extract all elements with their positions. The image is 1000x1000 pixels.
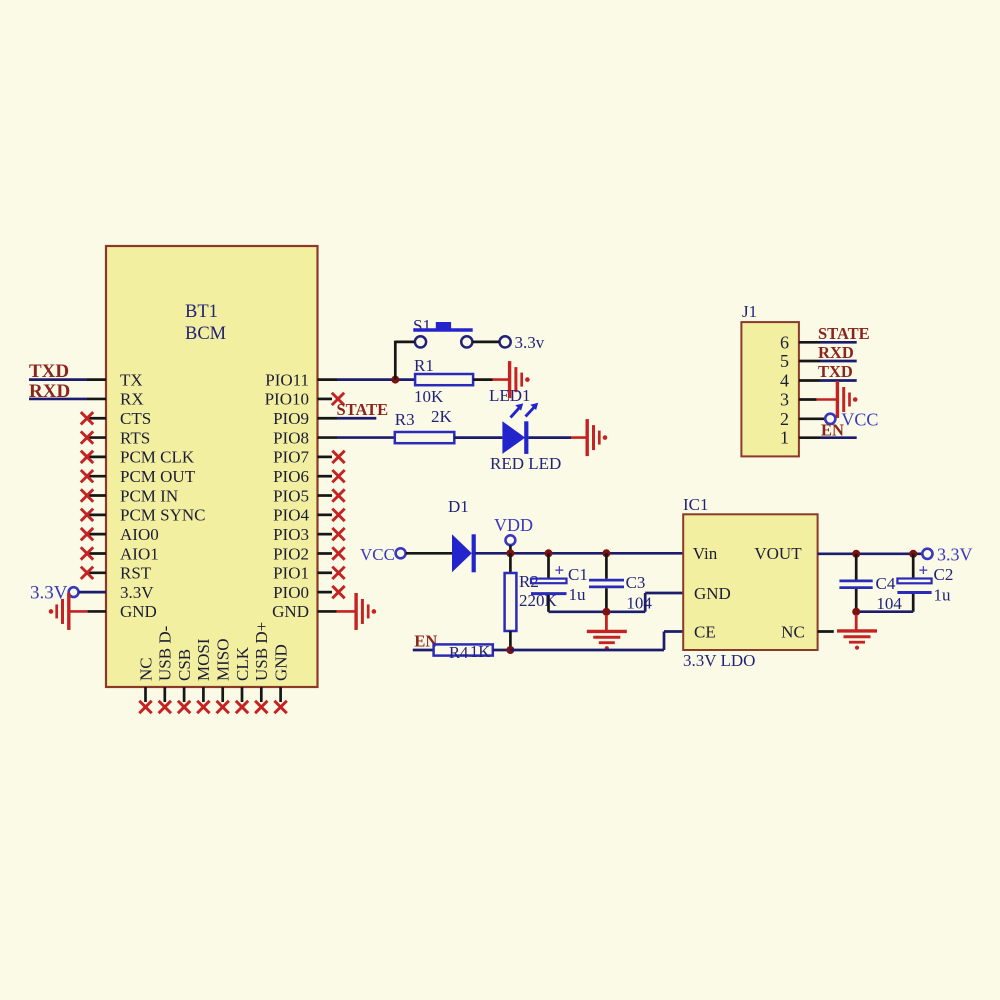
BT1 right pin label PIO4 xyxy=(273,506,309,525)
svg-text:D1: D1 xyxy=(448,497,469,516)
svg-text:BT1: BT1 xyxy=(185,302,218,322)
power port VCC (J1 pin 2) xyxy=(825,410,878,430)
svg-text:TXD: TXD xyxy=(818,362,853,381)
net label TXD xyxy=(29,361,69,382)
wire R4 to junction xyxy=(493,649,511,652)
junction node R4/R2/CE xyxy=(506,646,514,654)
BT1 left pin label RTS xyxy=(120,428,150,447)
BT1 bottom pin label GND xyxy=(271,644,290,681)
svg-text:AIO0: AIO0 xyxy=(120,525,159,544)
BT1 pin PIO0 stub with no-connect X xyxy=(318,586,345,598)
svg-text:3: 3 xyxy=(780,390,789,410)
svg-text:AIO1: AIO1 xyxy=(120,544,159,563)
net label TXD (J1 pin 4) xyxy=(818,362,853,381)
capacitor C2 (electrolytic 1u) xyxy=(897,554,953,612)
svg-text:STATE: STATE xyxy=(337,400,389,419)
net label RXD (J1 pin 5) xyxy=(818,343,854,362)
BT1 right GND pin wire xyxy=(318,610,357,613)
svg-text:CLK: CLK xyxy=(233,646,252,681)
resistor R2 (vertical) xyxy=(505,572,558,631)
IC1 NC pin stub xyxy=(818,630,834,633)
junction node VDD/R2 xyxy=(506,549,514,557)
svg-text:VCC: VCC xyxy=(841,410,878,430)
svg-text:3.3V LDO: 3.3V LDO xyxy=(683,651,755,670)
wire J1 pin 2 to VCC port xyxy=(799,417,825,420)
wire EN node to IC1 CE xyxy=(510,632,683,651)
svg-text:PIO10: PIO10 xyxy=(265,390,309,409)
BT1 pin PIO3 stub with no-connect X xyxy=(318,528,345,540)
J1 pin number 1 xyxy=(780,428,789,448)
svg-text:USB D-: USB D- xyxy=(156,625,175,681)
svg-text:PIO11: PIO11 xyxy=(265,370,309,389)
svg-text:+: + xyxy=(919,561,929,580)
svg-text:5: 5 xyxy=(780,351,789,371)
BT1 left pin label CTS xyxy=(120,409,151,428)
BT1 right pin label PIO11 xyxy=(265,370,309,389)
BT1 right pin label GND xyxy=(272,602,309,621)
junction node C2 top xyxy=(909,550,917,558)
IC U1 (IC1 3.3V LDO) body xyxy=(683,495,818,650)
resistor R1 xyxy=(414,356,473,406)
BT1 pin PIO2 stub with no-connect X xyxy=(318,547,345,559)
svg-text:S1: S1 xyxy=(413,316,431,335)
BT1 left pin label PCM CLK xyxy=(120,448,195,467)
junction node C1 xyxy=(545,549,553,557)
BT1 pin CTS stub with no-connect X xyxy=(81,412,106,424)
svg-text:CTS: CTS xyxy=(120,409,151,428)
capacitor C3 (104) xyxy=(589,553,652,612)
net label EN (left) xyxy=(414,632,437,651)
svg-text:PIO5: PIO5 xyxy=(273,486,309,505)
J1 pin number 5 xyxy=(780,351,789,371)
svg-text:PIO9: PIO9 xyxy=(273,409,309,428)
wire J1 pin 1 EN xyxy=(799,436,857,439)
BT1 left pin label GND xyxy=(120,602,157,621)
junction node C4 top xyxy=(852,550,860,558)
BT1 bottom pin label MISO xyxy=(214,638,233,681)
svg-text:PIO1: PIO1 xyxy=(273,564,309,583)
svg-text:3.3V: 3.3V xyxy=(120,583,154,602)
BT1 pin PCM CLK stub with no-connect X xyxy=(81,451,106,463)
svg-text:J1: J1 xyxy=(742,302,757,321)
svg-text:PCM SYNC: PCM SYNC xyxy=(120,506,206,525)
resistor R4 (1K) xyxy=(434,642,493,662)
svg-text:R3: R3 xyxy=(395,410,415,429)
ground below C4 xyxy=(855,615,858,631)
svg-text:LED1: LED1 xyxy=(489,386,531,405)
svg-text:10K: 10K xyxy=(414,387,444,406)
BT1 right pin label PIO7 xyxy=(273,448,309,467)
svg-text:NC: NC xyxy=(136,657,155,681)
wire TXD to TX pin xyxy=(29,378,106,381)
svg-text:C4: C4 xyxy=(876,574,896,593)
BT1 pin RST stub with no-connect X xyxy=(81,567,106,579)
BT1 bottom pin USB D+ stub with no-connect X xyxy=(255,687,267,713)
svg-text:3.3V: 3.3V xyxy=(937,545,973,565)
wire R2 bottom to EN node xyxy=(509,631,512,650)
BT1 bottom pin MOSI stub with no-connect X xyxy=(197,687,209,713)
BT1 pin PIO4 stub with no-connect X xyxy=(318,509,345,521)
svg-text:PIO3: PIO3 xyxy=(273,525,309,544)
svg-text:4: 4 xyxy=(780,371,789,391)
svg-text:1u: 1u xyxy=(934,586,952,605)
svg-text:+: + xyxy=(555,561,565,580)
BT1 bottom pin USB D- stub with no-connect X xyxy=(159,687,171,713)
BT1 right pin label PIO6 xyxy=(273,467,309,486)
svg-text:PIO4: PIO4 xyxy=(273,506,309,525)
svg-text:PIO0: PIO0 xyxy=(273,583,309,602)
switch S1 xyxy=(413,316,511,348)
wire J1 pin 3 to ground xyxy=(799,398,838,401)
wire RXD to RX pin xyxy=(29,398,106,401)
ground (left of BT1) xyxy=(49,593,69,630)
wire R1 to ground xyxy=(473,378,510,381)
BT1 pin PCM OUT stub with no-connect X xyxy=(81,470,106,482)
junction node C3 ground xyxy=(602,608,610,616)
BT1 pin PCM SYNC stub with no-connect X xyxy=(81,509,106,521)
BT1 pin PIO1 stub with no-connect X xyxy=(318,567,345,579)
BT1 right pin label PIO5 xyxy=(273,486,309,505)
svg-text:RXD: RXD xyxy=(818,343,854,362)
resistor R3 xyxy=(395,407,455,443)
svg-text:PIO2: PIO2 xyxy=(273,544,309,563)
BT1 left pin label RX xyxy=(120,390,144,409)
BT1 bottom pin label USB D+ xyxy=(252,622,271,681)
BT1 left GND pin wire xyxy=(69,610,106,613)
diode D1 xyxy=(448,497,476,572)
svg-text:104: 104 xyxy=(876,594,902,613)
BT1 left pin label RST xyxy=(120,564,152,583)
svg-text:IC1: IC1 xyxy=(683,495,709,514)
svg-text:MOSI: MOSI xyxy=(194,638,213,681)
wire 3.3V port to pin xyxy=(79,591,106,594)
wire C1/C3 bottoms to IC1 GND xyxy=(549,593,684,612)
BT1 left pin label AIO0 xyxy=(120,525,159,544)
BT1 left pin label PCM IN xyxy=(120,486,178,505)
svg-text:RTS: RTS xyxy=(120,428,150,447)
power port 3.3V (output) xyxy=(922,545,972,565)
BT1 bottom pin label NC xyxy=(136,657,155,681)
svg-text:1K: 1K xyxy=(470,642,490,661)
net label EN (J1 pin 1) xyxy=(821,421,844,440)
BT1 left pin label TX xyxy=(120,370,143,389)
BT1 bottom pin label USB D- xyxy=(156,625,175,681)
BT1 pin PIO10 stub with no-connect X xyxy=(318,393,345,405)
svg-text:GND: GND xyxy=(120,602,157,621)
svg-text:R4: R4 xyxy=(449,643,468,662)
svg-text:C2: C2 xyxy=(934,565,954,584)
svg-text:RST: RST xyxy=(120,564,152,583)
net label RXD xyxy=(29,381,70,402)
BT1 right pin label PIO8 xyxy=(273,428,309,447)
svg-text:RED LED: RED LED xyxy=(490,454,561,473)
BT1 left pin label AIO1 xyxy=(120,544,159,563)
J1 pin number 3 xyxy=(780,390,789,410)
svg-text:RX: RX xyxy=(120,390,144,409)
capacitor C1 (electrolytic 1u) xyxy=(531,553,588,612)
BT1 left pin label 3.3V xyxy=(120,583,154,602)
BT1 bottom pin label CSB xyxy=(175,649,194,681)
ground at J1 pin 3 xyxy=(837,381,857,418)
svg-text:2K: 2K xyxy=(431,407,453,426)
wire C4/C2 bottoms xyxy=(856,610,913,613)
svg-text:GND: GND xyxy=(271,644,290,681)
BT1 bottom pin CSB stub with no-connect X xyxy=(178,687,190,713)
BT1 bottom pin NC stub with no-connect X xyxy=(139,687,151,713)
wire J1 pin 5 RXD xyxy=(799,360,857,363)
net label STATE (J1 pin 6) xyxy=(818,324,870,343)
BT1 pin AIO0 stub with no-connect X xyxy=(81,528,106,540)
LED LED1 (RED LED) xyxy=(502,403,538,454)
label RED LED xyxy=(490,454,561,473)
junction node C4 ground xyxy=(852,608,860,616)
J1 pin number 4 xyxy=(780,371,789,391)
ground at R1 xyxy=(510,361,530,398)
BT1 right pin label PIO10 xyxy=(265,390,309,409)
power port VDD xyxy=(494,515,533,545)
svg-text:C3: C3 xyxy=(626,573,646,592)
svg-text:Vin: Vin xyxy=(693,544,718,563)
svg-text:PCM CLK: PCM CLK xyxy=(120,448,195,467)
svg-text:R2: R2 xyxy=(519,572,539,591)
BT1 bottom pin CLK stub with no-connect X xyxy=(236,687,248,713)
BT1 pin PIO6 stub with no-connect X xyxy=(318,470,345,482)
wire S1 to PIO11 junction xyxy=(395,341,414,380)
wire PIO8 to R3 xyxy=(318,436,395,439)
label LED1 xyxy=(489,386,531,405)
svg-text:R1: R1 xyxy=(414,356,434,375)
svg-text:PCM IN: PCM IN xyxy=(120,486,178,505)
svg-text:CE: CE xyxy=(694,622,716,641)
BT1 left pin label PCM SYNC xyxy=(120,506,206,525)
BT1 pin RTS stub with no-connect X xyxy=(81,431,106,443)
svg-text:VOUT: VOUT xyxy=(754,544,802,563)
power port 3.3V (left) xyxy=(30,583,79,604)
svg-text:GND: GND xyxy=(272,602,309,621)
wire J1 pin 4 TXD xyxy=(799,379,857,382)
BT1 pin AIO1 stub with no-connect X xyxy=(81,547,106,559)
power port 3.3v at S1 xyxy=(515,333,545,352)
wire D1 cathode to IC1 Vin xyxy=(475,552,683,555)
wire J1 pin 6 STATE xyxy=(799,341,857,344)
svg-text:2: 2 xyxy=(780,409,789,429)
BT1 pin PIO5 stub with no-connect X xyxy=(318,489,345,501)
svg-text:1u: 1u xyxy=(569,585,587,604)
connector J1 body xyxy=(741,302,799,456)
wire EN stub to R4 xyxy=(413,649,434,652)
svg-text:C1: C1 xyxy=(568,565,588,584)
svg-text:3.3v: 3.3v xyxy=(515,333,545,352)
wire rail to R2 xyxy=(509,553,512,573)
ground below C3 xyxy=(605,615,608,631)
svg-text:VCC: VCC xyxy=(360,545,395,564)
BT1 right pin label PIO3 xyxy=(273,525,309,544)
wire PIO11 to R1 and S1 xyxy=(318,378,416,381)
junction node PIO11/S1/R1 xyxy=(391,376,399,384)
wire VDD stem xyxy=(509,545,512,553)
wire R3 to LED1 xyxy=(454,436,502,439)
BT1 bottom pin GND stub with no-connect X xyxy=(274,687,286,713)
svg-text:PIO7: PIO7 xyxy=(273,448,309,467)
svg-text:1: 1 xyxy=(780,428,789,448)
svg-text:6: 6 xyxy=(780,332,789,352)
BT1 bottom pin MISO stub with no-connect X xyxy=(217,687,229,713)
svg-text:PIO8: PIO8 xyxy=(273,428,309,447)
J1 pin number 2 xyxy=(780,409,789,429)
power port VCC (input rail) xyxy=(360,545,406,564)
svg-text:CSB: CSB xyxy=(175,649,194,681)
svg-text:PIO6: PIO6 xyxy=(273,467,309,486)
wire VOUT rail xyxy=(818,552,923,555)
J1 pin number 6 xyxy=(780,332,789,352)
wire PIO9 STATE net xyxy=(318,417,377,420)
label 3.3V LDO xyxy=(683,651,755,670)
BT1 bottom pin label CLK xyxy=(233,646,252,681)
BT1 pin PCM IN stub with no-connect X xyxy=(81,489,106,501)
svg-text:VDD: VDD xyxy=(494,515,533,535)
svg-text:PCM OUT: PCM OUT xyxy=(120,467,196,486)
BT1 pin PIO7 stub with no-connect X xyxy=(318,451,345,463)
BT1 right pin label PIO2 xyxy=(273,544,309,563)
svg-text:MISO: MISO xyxy=(214,638,233,681)
svg-text:GND: GND xyxy=(694,584,731,603)
IC BT1 (BCM bluetooth module) body xyxy=(106,246,318,687)
svg-text:104: 104 xyxy=(626,594,652,613)
wire VCC to D1 anode xyxy=(406,552,452,555)
svg-text:STATE: STATE xyxy=(818,324,870,343)
svg-text:TX: TX xyxy=(120,370,143,389)
junction node C3 xyxy=(602,549,610,557)
ground at LED1 xyxy=(587,419,607,456)
BT1 bottom pin label MOSI xyxy=(194,638,213,681)
ground (right of BT1) xyxy=(356,593,376,630)
capacitor C4 (104) xyxy=(839,554,902,613)
wire LED1 to ground xyxy=(528,436,587,439)
BT1 right pin label PIO0 xyxy=(273,583,309,602)
svg-text:USB D+: USB D+ xyxy=(252,622,271,681)
BT1 left pin label PCM OUT xyxy=(120,467,196,486)
BT1 right pin label PIO9 xyxy=(273,409,309,428)
svg-text:BCM: BCM xyxy=(185,324,226,344)
net label STATE (PIO9) xyxy=(337,400,389,419)
svg-text:NC: NC xyxy=(781,622,805,641)
BT1 right pin label PIO1 xyxy=(273,564,309,583)
